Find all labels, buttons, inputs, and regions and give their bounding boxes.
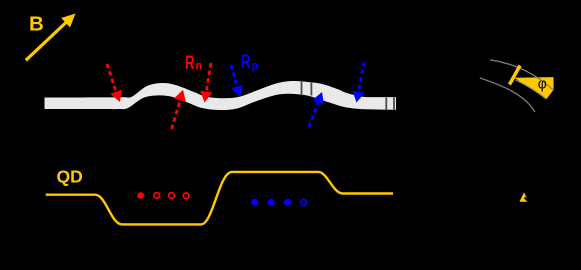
svg-text:p: p (252, 59, 258, 73)
svg-text:B: B (29, 12, 44, 35)
svg-text:n: n (195, 59, 202, 73)
svg-text:R: R (241, 52, 251, 73)
svg-text:QD: QD (57, 166, 83, 186)
svg-text:φ: φ (538, 76, 547, 93)
svg-text:R: R (185, 53, 195, 74)
